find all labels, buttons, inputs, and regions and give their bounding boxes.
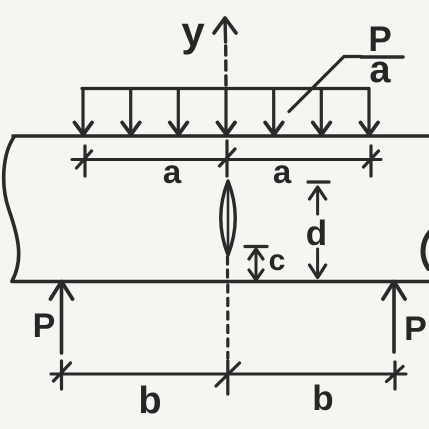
svg-text:b: b (138, 380, 161, 422)
svg-text:a: a (163, 153, 182, 190)
load arrow 5 (272, 89, 275, 132)
y-axis dashed line top (223, 18, 227, 42)
load arrow 2 (129, 89, 132, 132)
tick a center (225, 141, 228, 176)
support arrow P left (60, 286, 64, 353)
svg-text:P: P (33, 307, 56, 345)
load arrow 7 (367, 89, 370, 132)
tick b right (393, 362, 396, 389)
y-axis dashed line below ellipse (226, 257, 229, 279)
tick b left (60, 361, 63, 389)
load arrow 1 (81, 89, 84, 132)
beam top edge (13, 134, 429, 137)
tick a right (369, 146, 372, 176)
y-axis arrowhead (214, 18, 236, 33)
dimension line a (72, 158, 381, 161)
leader line to load (289, 57, 361, 112)
dimension d arrow (308, 180, 329, 183)
beam bottom edge (12, 280, 429, 283)
left break curve (4, 137, 19, 281)
dimension c arrow (245, 245, 267, 248)
label P/a fraction: bar (361, 55, 403, 58)
svg-text:b: b (312, 379, 333, 418)
svg-text:a: a (273, 153, 292, 190)
support arrow P right (392, 286, 396, 352)
load arrow 4 (on y-axis) (224, 89, 227, 132)
svg-text:c: c (269, 244, 286, 277)
load arrow 3 (177, 89, 180, 132)
svg-text:d: d (306, 214, 327, 253)
crack center line (227, 184, 230, 252)
dimension line b (51, 373, 406, 376)
crack ellipse (221, 181, 236, 255)
svg-text:P: P (404, 310, 427, 348)
y-axis dashed line bottom (226, 285, 229, 358)
tick a left (83, 146, 86, 176)
load arrow 6 (320, 89, 323, 132)
tick b center (226, 361, 229, 394)
svg-text:a: a (369, 49, 391, 91)
svg-text:y: y (181, 8, 205, 55)
right break curve (423, 232, 429, 269)
distributed load top line (82, 87, 369, 90)
